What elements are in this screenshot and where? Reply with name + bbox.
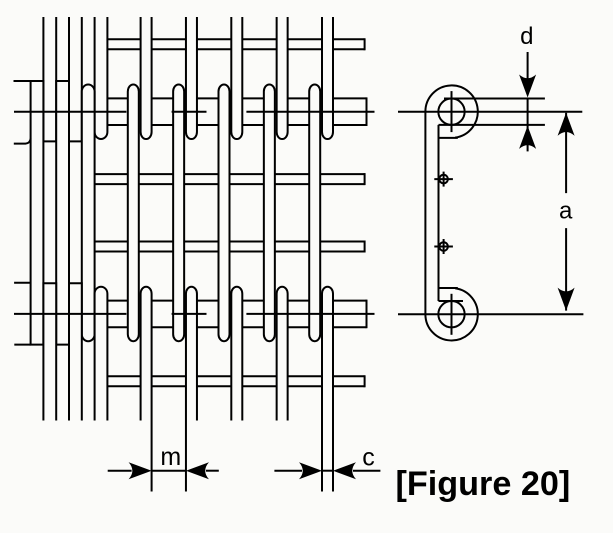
d extension line top [444, 98, 545, 100]
label m [160, 443, 181, 471]
vertical wire cluster bottom segment 0 [43, 283, 56, 420]
vertical wire main top segment 2 [231, 17, 242, 139]
svg-text:a: a [559, 197, 573, 224]
section warp wire inner line [438, 125, 440, 301]
upper weft wire cross-section circle [438, 99, 464, 125]
vertical wire cluster top segment 2 [95, 17, 108, 139]
vertical wire main middle segment 3 (hooked over both bands) [264, 85, 275, 342]
label d [520, 23, 533, 50]
dimension m arrow right [186, 462, 219, 479]
dimension m arrow left [108, 462, 152, 479]
weft wire row 0 (thin horizontal wire, behind verticals) [107, 38, 364, 50]
vertical wire cluster bottom segment 1 [69, 283, 82, 420]
d extension line bottom [439, 124, 545, 126]
left selvage hook bottom stub band 2 [14, 344, 30, 346]
extension line c left [321, 421, 323, 492]
dimension d arrow down [519, 52, 536, 98]
weft wire row 1 (thin horizontal wire, behind verticals) [95, 173, 365, 185]
extension line m left [151, 421, 153, 492]
band weft wire 2 edges (thick horizontal wire with closed right end) [107, 300, 366, 329]
dimension c arrow left [274, 462, 322, 479]
upper weft centre mark vertical [451, 91, 453, 132]
section warp wire outer line [424, 112, 426, 315]
vertical wire cluster top segment 1 [69, 17, 82, 141]
weft wire row 3 (thin horizontal wire, behind verticals) [107, 375, 364, 387]
hidden weft wire position mark 1 (crossed circle) [434, 172, 453, 187]
left selvage hook top line band 1 [14, 80, 31, 82]
section mesh line top (through upper weft centre) [398, 111, 582, 113]
vertical wire cluster top segment 0 [43, 17, 56, 141]
section mesh line bottom (through lower weft centre) [398, 313, 583, 315]
vertical wire cluster middle segment 1 (hooked over both bands) [56, 81, 69, 345]
vertical wire main bottom segment 2 [231, 287, 242, 421]
vertical wire main middle segment 1 (hooked over both bands) [173, 85, 184, 342]
vertical wire main bottom segment 4 [322, 287, 333, 421]
vertical wire main middle segment 4 (hooked over both bands) [309, 85, 320, 342]
warp hook bottom (outer bend) [425, 288, 477, 340]
vertical wire cluster middle segment 0 (hooked over both bands) [31, 81, 44, 345]
svg-text:[Figure 20]: [Figure 20] [396, 465, 571, 503]
band weft wire 2 centreline [14, 313, 375, 315]
label a [559, 197, 573, 224]
band weft wire 1 edges (thick horizontal wire with closed right end) [107, 97, 366, 126]
lower weft tangent stub [439, 300, 464, 302]
vertical wire cluster bottom segment 2 [95, 287, 108, 421]
vertical wire main bottom segment 3 [277, 287, 288, 421]
dimension m line between [152, 470, 186, 472]
dimension c line between [322, 470, 333, 472]
vertical wire main top segment 0 [141, 17, 152, 139]
svg-text:d: d [520, 23, 533, 50]
warp hook top (outer bend) [425, 85, 477, 137]
left selvage hook bottom stub band 1 [14, 139, 31, 144]
svg-text:c: c [362, 443, 375, 471]
vertical wire cluster middle segment 2 (hooked over both bands) [82, 85, 95, 342]
svg-text:m: m [160, 443, 181, 471]
vertical wire main top segment 4 [322, 17, 333, 139]
vertical wire main middle segment 0 (hooked over both bands) [128, 85, 139, 342]
caption [Figure 20] [396, 465, 571, 503]
vertical wire main middle segment 2 (hooked over both bands) [219, 85, 230, 342]
vertical wire main bottom segment 0 [141, 287, 152, 421]
left selvage hook top stub band 2 [14, 282, 31, 284]
label c [362, 443, 375, 471]
dimension a line with arrows [558, 113, 575, 311]
band weft wire 1 centreline [14, 111, 375, 113]
lower weft wire cross-section circle [438, 301, 464, 327]
extension line c right [332, 421, 334, 492]
vertical wire main top segment 3 [277, 17, 288, 139]
vertical wire main top segment 1 [186, 17, 197, 139]
extension line m right [185, 421, 187, 492]
weft wire row 2 (thin horizontal wire, behind verticals) [95, 241, 365, 253]
dimension c arrow right [333, 462, 380, 479]
hidden weft wire position mark 2 (crossed circle) [434, 239, 453, 254]
vertical wire main bottom segment 1 [186, 287, 197, 421]
dimension d crossing segment [527, 99, 529, 130]
dimension d arrow up [519, 126, 536, 152]
lower weft centre mark vertical [451, 294, 453, 335]
